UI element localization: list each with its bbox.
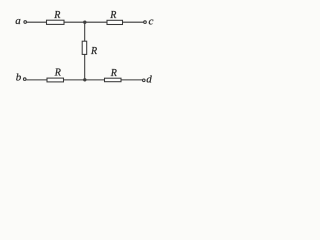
svg-text:R: R [90, 46, 97, 57]
svg-text:c: c [149, 16, 154, 28]
svg-text:d: d [146, 74, 152, 86]
svg-text:b: b [16, 72, 22, 84]
svg-text:R: R [109, 10, 116, 21]
svg-text:R: R [110, 68, 117, 79]
svg-text:R: R [54, 68, 61, 79]
svg-text:a: a [15, 15, 21, 27]
svg-text:R: R [53, 10, 60, 21]
